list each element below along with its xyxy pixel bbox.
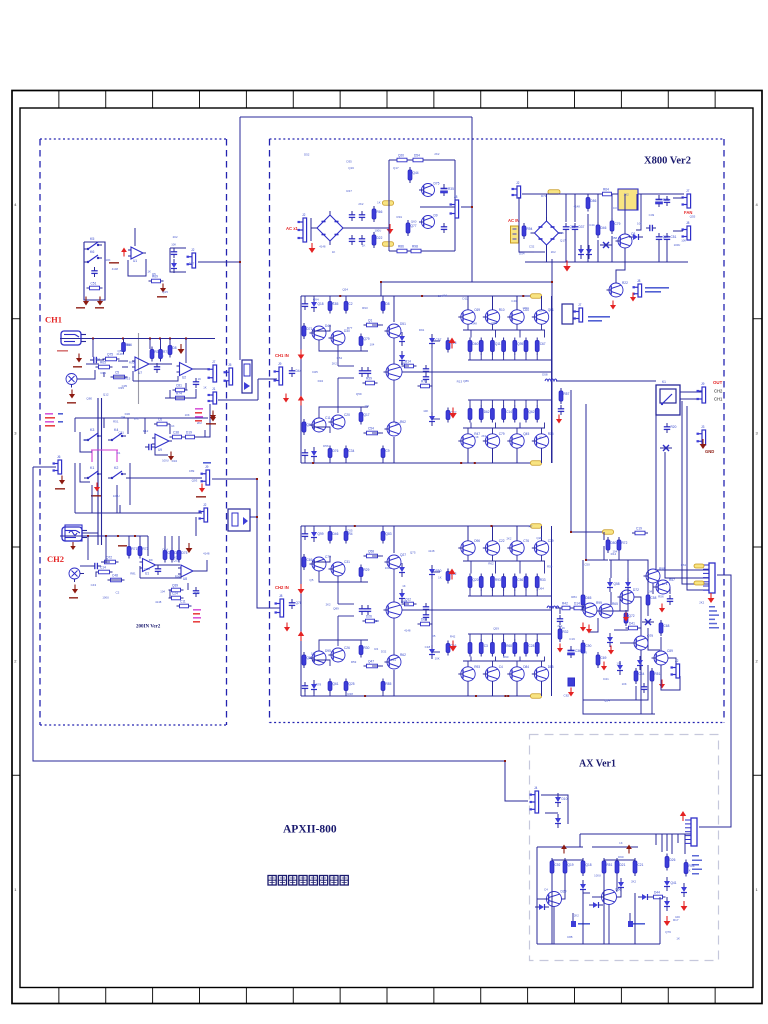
wire Dx7 (80, 565, 91, 567)
wire axd (655, 834, 657, 845)
label text TX10 (45, 413, 53, 415)
junction JD8 (570, 531, 572, 533)
svg-text:D16: D16 (558, 231, 564, 235)
label OUTCH2 (714, 389, 723, 394)
wire Dx6 (178, 536, 180, 550)
svg-text:D56: D56 (323, 444, 329, 448)
resistor R89 (479, 574, 483, 591)
svg-text:Q79: Q79 (665, 930, 671, 934)
resistor R12 (154, 418, 170, 426)
inductor L2 (547, 606, 559, 608)
wire mid bus2 (468, 633, 540, 635)
resistor R63 (502, 406, 512, 423)
svg-text:X800 Ver2: X800 Ver2 (644, 156, 691, 167)
svg-text:200IN Ver2: 200IN Ver2 (136, 625, 161, 630)
wire qd (492, 428, 494, 434)
svg-text:D44: D44 (654, 891, 660, 895)
resistor R90 (479, 640, 488, 657)
wire top horizontal bus (240, 116, 472, 118)
resistor R70 (302, 554, 312, 570)
svg-text:D65: D65 (586, 596, 592, 600)
wire PRx2 (566, 607, 572, 609)
label text TX9 (206, 423, 216, 425)
resistor R99 (535, 574, 545, 591)
svg-text:D54: D54 (519, 252, 525, 256)
wire Bx15 (193, 368, 208, 370)
svg-text:R32: R32 (563, 630, 569, 634)
capacitor C40 (557, 615, 563, 625)
svg-text:10K: 10K (311, 651, 316, 655)
inductor L1 (545, 379, 557, 381)
svg-text:C14: C14 (100, 566, 106, 570)
resistor R36 (596, 222, 606, 238)
svg-text:C2: C2 (115, 590, 119, 594)
wire rd (480, 400, 482, 406)
top ruler ticks (59, 91, 715, 109)
svg-text:1K: 1K (438, 576, 442, 580)
wire s1 left (536, 847, 538, 944)
resistor R31 (408, 245, 424, 253)
wire qd (516, 555, 518, 561)
label text TX17 (195, 412, 202, 414)
left ruler ticks (12, 202, 20, 892)
resistor R18 (127, 544, 137, 559)
svg-text:AC IN: AC IN (508, 218, 519, 223)
wire rd (536, 354, 538, 360)
resistor R17 (108, 574, 125, 582)
junction JD6 (256, 478, 258, 480)
wire Cx3 (144, 418, 146, 434)
wire out a (680, 391, 702, 393)
svg-text:D91: D91 (419, 328, 425, 332)
wire left vertical bus (239, 117, 241, 360)
wire qd2 (470, 561, 472, 574)
svg-text:4148: 4148 (112, 267, 119, 271)
connector J17 (697, 382, 706, 403)
resistor R119 (581, 858, 592, 876)
resistor R91 (491, 574, 501, 591)
wire AXx11 (652, 896, 653, 898)
resistor R86 (418, 618, 433, 626)
wire PSU bottom rail (525, 261, 688, 263)
capacitor C17 (441, 223, 447, 233)
transistor Q21 (329, 560, 351, 576)
label text TX33 (578, 923, 590, 925)
wire CH2amp mesh4 (329, 526, 331, 531)
junction JD19 (134, 535, 136, 537)
wire sense 2 (687, 406, 709, 590)
wire CH1amp mesh13 (337, 378, 339, 413)
wire qd2 (495, 423, 497, 429)
wire CH1amp mesh14 (338, 365, 354, 367)
wire CH1amp mesh1 (313, 296, 315, 298)
resistor R97 (524, 574, 528, 591)
capacitor C29 (423, 365, 429, 375)
svg-text:R99: R99 (596, 601, 602, 605)
label text TX3 (95, 307, 104, 309)
connector J8 (274, 362, 283, 385)
svg-text:U1: U1 (133, 259, 137, 263)
svg-text:C20: C20 (344, 413, 350, 417)
wire s2 d3 (634, 893, 636, 944)
svg-text:Q72: Q72 (629, 614, 635, 618)
resistor R33 (406, 220, 417, 236)
wire Px5 (611, 194, 613, 220)
label text TX26 (193, 613, 200, 615)
capacitor C6 (145, 444, 155, 450)
wire s1 rail (537, 846, 583, 848)
svg-text:C11: C11 (180, 600, 186, 604)
label 200IN Ver2 (136, 625, 161, 630)
svg-text:2K2: 2K2 (551, 250, 556, 254)
svg-text:D64: D64 (538, 587, 544, 591)
wire CH1amp mesh22 (312, 427, 330, 433)
resistor R14 (183, 431, 198, 439)
wire s1 d2 (564, 875, 566, 891)
svg-text:R93: R93 (474, 665, 480, 669)
title AX Ver1 (579, 759, 616, 770)
label text TX25 (193, 609, 201, 611)
resistor R81 (381, 529, 392, 544)
svg-text:D71: D71 (541, 194, 547, 198)
resistor R35 (586, 195, 596, 212)
svg-text:C3: C3 (484, 644, 488, 648)
svg-text:Q79: Q79 (364, 337, 370, 341)
resistor R82 (381, 679, 391, 694)
diode D27 (535, 904, 549, 910)
wire fan a (673, 197, 683, 199)
wire Dx13 (169, 590, 171, 598)
svg-text:J9: J9 (278, 362, 282, 366)
title X800 Ver2 (644, 156, 691, 167)
svg-text:R51: R51 (607, 863, 613, 867)
wire s2 rail (592, 846, 638, 848)
transistor Q17 (507, 432, 529, 448)
capacitor C13 (349, 235, 355, 245)
resistor R102 (659, 620, 669, 636)
svg-text:104: 104 (612, 550, 617, 554)
resistor R55 (418, 380, 433, 388)
wire CH2amp mesh24 (360, 640, 362, 645)
connector J15 (633, 279, 642, 297)
svg-text:R53: R53 (351, 660, 357, 664)
wire Cx5 (91, 485, 93, 513)
wire fan b (673, 230, 683, 232)
wire q drop (492, 296, 494, 310)
junction JD5 (256, 516, 258, 518)
junction JD18 (117, 535, 119, 537)
wire AXx1 (553, 907, 555, 944)
diode D18 (617, 661, 623, 675)
svg-text:1K: 1K (203, 385, 207, 389)
diode D6 (311, 298, 324, 312)
svg-text:104: 104 (160, 590, 165, 594)
label text TX8 (67, 402, 76, 404)
resistor R19 (138, 544, 148, 559)
svg-text:Q83: Q83 (386, 532, 392, 536)
svg-text:D54: D54 (414, 154, 420, 158)
svg-text:J2: J2 (675, 659, 679, 663)
transistor Q20 (310, 555, 332, 571)
ground GND8 (210, 411, 216, 420)
resistor R109 (558, 626, 568, 642)
svg-text:D51: D51 (400, 322, 406, 326)
capacitor C3 (90, 357, 100, 363)
svg-text:D37: D37 (579, 225, 585, 229)
transistor Q7 (310, 416, 331, 432)
wire AXx10 (638, 896, 640, 898)
net label Vn (383, 242, 394, 247)
wire Dx10 (156, 564, 180, 566)
transistor Q25 (384, 600, 408, 618)
svg-text:D27: D27 (189, 262, 195, 266)
svg-text:R65: R65 (100, 361, 106, 365)
label text TX30 (645, 291, 661, 293)
wire qd2 (495, 561, 497, 574)
wire Bx6 (77, 370, 95, 379)
svg-text:R57: R57 (564, 392, 570, 396)
svg-text:R86: R86 (398, 245, 404, 249)
wire qd (467, 555, 469, 561)
transistor Q11 (385, 420, 407, 436)
wire CH2 top rail (60, 535, 148, 537)
wire drop (565, 233, 567, 262)
net label NET5 (603, 530, 614, 535)
wire qd2 (544, 561, 546, 574)
diode D30 (618, 878, 624, 892)
wire CH2amp mesh20 (402, 603, 409, 605)
svg-text:1K: 1K (148, 270, 152, 274)
wire CH2amp mesh27 (432, 571, 440, 573)
diode D21 (625, 578, 631, 592)
power arrow PWR8 (680, 811, 686, 821)
wire Bx1 (123, 339, 125, 343)
label CH1 (45, 315, 62, 325)
wire Dx0 (87, 536, 89, 560)
ground GND6 (69, 390, 75, 399)
dashed box X800 main sheet (270, 139, 725, 723)
ground GND1 (59, 476, 65, 485)
label FAN (684, 210, 692, 215)
svg-text:104: 104 (637, 222, 642, 226)
svg-text:C34: C34 (349, 449, 355, 453)
wire CH1amp mesh15 (338, 377, 354, 379)
ground GND3 (97, 297, 103, 306)
wire AXx6 (616, 875, 617, 891)
resistor R125 (684, 860, 694, 877)
label text TX20 (91, 495, 101, 497)
wire Cx0 (75, 417, 208, 419)
label GND (705, 449, 714, 454)
svg-text:D60: D60 (421, 618, 427, 622)
wire qd2 (544, 423, 546, 429)
transistor Q6 (329, 329, 351, 345)
resistor R11 (173, 392, 188, 400)
capacitor C39 (664, 423, 677, 433)
svg-text:OUT: OUT (713, 380, 723, 385)
svg-text:D19: D19 (186, 431, 192, 435)
resistor R45 (364, 319, 381, 327)
wire prot feed 2 (586, 404, 608, 560)
power arrow PWR2 (298, 396, 304, 406)
svg-text:D60: D60 (473, 342, 479, 346)
wire Dx14 (187, 583, 189, 590)
svg-text:Q1: Q1 (368, 319, 372, 323)
resistor R23 (169, 584, 184, 592)
svg-text:1K: 1K (475, 435, 479, 439)
svg-text:C67: C67 (540, 342, 546, 346)
wire rd (525, 634, 527, 640)
svg-text:Q58: Q58 (368, 550, 374, 554)
svg-text:Q98: Q98 (491, 321, 497, 325)
wire K3 wire (80, 432, 92, 452)
svg-text:D86: D86 (591, 199, 597, 203)
capacitor C18 (563, 223, 576, 233)
wire axr (659, 897, 661, 944)
wire CH1amp mesh3 (313, 461, 315, 463)
resistor R111 (581, 640, 591, 656)
wire out b (680, 398, 702, 400)
diode D10 (429, 334, 442, 348)
svg-text:J8: J8 (637, 279, 641, 283)
svg-text:K1: K1 (90, 466, 94, 470)
bridge rectifier BR1 (313, 211, 347, 245)
resistor R87 (468, 574, 479, 591)
label text TX1 (55, 488, 65, 490)
svg-text:AX Ver1: AX Ver1 (579, 759, 616, 770)
svg-text:Q18: Q18 (586, 863, 592, 867)
svg-text:C49: C49 (649, 213, 655, 217)
wire to out (540, 595, 552, 597)
wire rd (491, 354, 493, 360)
capacitor C19 (572, 223, 585, 233)
svg-text:C4: C4 (499, 665, 503, 669)
wire s2 d1 (603, 875, 605, 944)
svg-text:D25: D25 (312, 370, 318, 374)
diode D32 (664, 877, 677, 891)
wire CH2amp row2 bus (463, 660, 545, 662)
wire CH2amp mesh21 (312, 556, 330, 562)
capacitor C9 (193, 587, 199, 597)
svg-text:1K: 1K (171, 424, 175, 428)
ground GND22 (630, 293, 636, 302)
wire PRx22 (660, 637, 662, 651)
wire Bx9 (122, 366, 128, 368)
wire CH2amp bottom rail (301, 695, 533, 697)
op-amp U2 (132, 357, 152, 375)
svg-text:J8: J8 (279, 594, 283, 598)
svg-text:C38: C38 (173, 431, 179, 435)
wire rd (514, 590, 516, 596)
capacitor C36 (423, 611, 429, 621)
wire qd2 (495, 657, 497, 662)
label text TX14 (58, 413, 63, 415)
label text TX34 (633, 923, 645, 925)
wire rd (514, 634, 516, 640)
ground GND33 (608, 646, 614, 655)
label CH2 (47, 554, 64, 564)
ground GND25 (298, 584, 305, 594)
wire rd (469, 400, 471, 406)
svg-text:Q20: Q20 (398, 154, 404, 158)
svg-text:R54: R54 (547, 565, 553, 569)
wire rd (503, 354, 505, 360)
wire qd (541, 428, 543, 434)
wire CH2amp mesh23 (360, 577, 362, 582)
net label NET1 (531, 294, 542, 299)
svg-text:D58: D58 (612, 236, 618, 240)
connector J5 (201, 465, 210, 485)
svg-text:C24: C24 (328, 301, 334, 305)
resistor R8 (159, 347, 169, 362)
wire rd (480, 634, 482, 640)
wire rd (525, 590, 527, 596)
regulator U7815 (618, 189, 638, 210)
wire PRx3 (582, 608, 584, 612)
junction JD17 (105, 535, 107, 537)
resistor R49 (363, 377, 378, 385)
svg-text:C21: C21 (638, 863, 644, 867)
resistor R123 (651, 891, 666, 899)
wire drop (574, 233, 576, 262)
resistor R83 (446, 569, 456, 584)
resistor R4 (96, 361, 113, 369)
svg-text:J6: J6 (57, 455, 61, 459)
svg-text:D21: D21 (620, 863, 626, 867)
svg-text:4148: 4148 (404, 629, 411, 633)
transistor Q27 (458, 539, 480, 555)
ground GND12 (70, 542, 75, 550)
svg-text:D29: D29 (561, 890, 567, 894)
wire CH2amp mesh15 (338, 615, 354, 617)
ground GND32 (601, 662, 607, 671)
svg-text:D8: D8 (173, 346, 177, 350)
svg-text:R13: R13 (457, 379, 463, 383)
svg-text:C51: C51 (390, 658, 396, 662)
wire AXx8 (572, 913, 574, 921)
diode D11 (429, 412, 435, 426)
wire CH2amp mesh12 (337, 576, 339, 604)
svg-text:Q25: Q25 (349, 682, 355, 686)
wire CH1 top rail (60, 338, 215, 340)
svg-text:J7: J7 (686, 189, 690, 193)
diode D31 (638, 894, 652, 900)
wire rd (469, 354, 471, 360)
wire Bx18 (113, 376, 125, 378)
label text TX5 (157, 296, 167, 298)
wire drop (597, 240, 599, 262)
svg-text:10K: 10K (105, 258, 110, 262)
wire Bx4 (169, 339, 171, 346)
wire CH2amp left rail (300, 526, 302, 696)
net label AC (548, 190, 560, 195)
svg-text:Q86: Q86 (581, 651, 587, 655)
capacitor C31 (302, 530, 308, 540)
capacitor C7 (91, 563, 101, 569)
svg-text:C69: C69 (307, 558, 313, 562)
wire qd2 (519, 330, 521, 338)
wire M3 right rail lower (551, 381, 553, 463)
sub2 frame (562, 304, 573, 324)
svg-text:104: 104 (616, 661, 621, 665)
svg-text:C24: C24 (172, 592, 178, 596)
wire Cx11 (183, 436, 184, 438)
svg-text:Q99: Q99 (318, 532, 324, 536)
bridge rectifier BR2 (531, 217, 563, 249)
connector J13 (682, 189, 691, 208)
wire CH1amp mesh6 (329, 458, 331, 463)
wire CH2amp vas drop (393, 526, 395, 553)
